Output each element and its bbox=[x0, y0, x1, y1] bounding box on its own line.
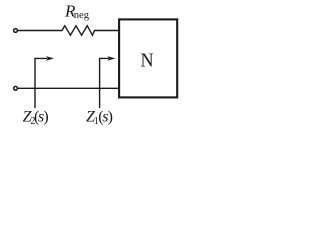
network box N bbox=[119, 19, 177, 97]
wire (bottom terminal to network N) bbox=[18, 87, 119, 89]
arrow Z2 pointer (vertical riser and right-pointing arrow) bbox=[35, 58, 48, 108]
resistor R_neg bbox=[62, 26, 95, 36]
svg-text:): ) bbox=[43, 109, 48, 126]
wire (top terminal to resistor) bbox=[18, 30, 62, 32]
arrow Z1 pointer (vertical riser and right-pointing arrow) bbox=[100, 58, 110, 108]
arrowhead Z2 bbox=[46, 56, 54, 61]
arrowhead Z1 bbox=[107, 56, 115, 61]
terminal (bottom-left input) bbox=[14, 86, 18, 90]
wire (resistor to network N) bbox=[95, 30, 119, 32]
terminal (top-left input) bbox=[14, 29, 18, 33]
svg-text:): ) bbox=[108, 109, 113, 126]
svg-text:N: N bbox=[141, 49, 154, 71]
svg-text:neg: neg bbox=[74, 10, 90, 21]
